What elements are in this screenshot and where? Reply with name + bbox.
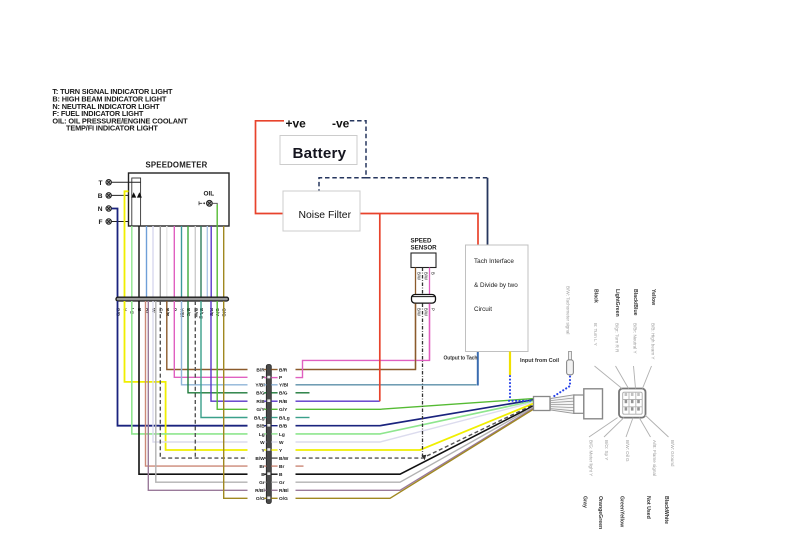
svg-text:A/B: Flame signal: A/B: Flame signal bbox=[652, 440, 657, 476]
svg-text:Y/Bl: Y/Bl bbox=[279, 383, 288, 389]
svg-text:B/Lg: B/Lg bbox=[279, 415, 290, 421]
svg-text:Y/Bl: Y/Bl bbox=[255, 383, 264, 389]
svg-text:B: B bbox=[261, 472, 265, 478]
svg-text:Tach Interface: Tach Interface bbox=[474, 258, 514, 265]
svg-text:R/Bl: R/Bl bbox=[279, 488, 289, 494]
svg-text:W: W bbox=[279, 440, 284, 446]
svg-text:B: Turn L Y: B: Turn L Y bbox=[593, 323, 598, 346]
svg-text:Gr: Gr bbox=[279, 480, 285, 486]
svg-text:B/O: Sp Y: B/O: Sp Y bbox=[604, 440, 609, 460]
svg-text:TEMP/FI INDICATOR LIGHT: TEMP/FI INDICATOR LIGHT bbox=[66, 124, 158, 133]
svg-text:Battery: Battery bbox=[293, 145, 347, 162]
svg-text:O/G: O/G bbox=[279, 496, 288, 502]
svg-text:OrangeGreen: OrangeGreen bbox=[597, 496, 603, 529]
svg-text:Gr: Gr bbox=[259, 480, 265, 486]
svg-text:+ve: +ve bbox=[286, 117, 307, 131]
svg-text:Br: Br bbox=[279, 464, 284, 470]
svg-text:SPEED: SPEED bbox=[411, 238, 433, 245]
svg-text:O/G: O/G bbox=[256, 496, 265, 502]
svg-text:OIL: OIL bbox=[204, 191, 215, 198]
svg-text:T: T bbox=[98, 180, 102, 187]
svg-text:B/W: B/W bbox=[416, 308, 421, 316]
svg-text:B/W: B/W bbox=[423, 308, 428, 316]
svg-text:Yellow: Yellow bbox=[650, 289, 656, 306]
svg-text:G/Y: G/Y bbox=[256, 407, 265, 413]
svg-text:BlackWhite: BlackWhite bbox=[663, 496, 669, 524]
svg-text:Black/Blue: Black/Blue bbox=[632, 289, 638, 316]
svg-text:B/B: B/B bbox=[279, 424, 288, 430]
svg-text:B/G: B/G bbox=[279, 391, 288, 397]
svg-text:Input from Coil: Input from Coil bbox=[520, 358, 560, 364]
svg-text:B/R: B/R bbox=[279, 367, 288, 373]
svg-text:Br: Br bbox=[259, 464, 264, 470]
svg-text:R/B: R/B bbox=[279, 399, 288, 405]
svg-text:W: W bbox=[260, 440, 265, 446]
svg-text:SPEEDOMETER: SPEEDOMETER bbox=[146, 161, 208, 170]
svg-text:& Divide by two: & Divide by two bbox=[474, 282, 518, 289]
svg-text:-ve: -ve bbox=[332, 117, 350, 131]
svg-text:B/Lg: B/Lg bbox=[254, 415, 265, 421]
svg-text:B/W: Oil G: B/W: Oil G bbox=[625, 440, 630, 462]
svg-text:B/W: Tachometer signal: B/W: Tachometer signal bbox=[566, 286, 571, 334]
svg-text:B/G: B/G bbox=[256, 391, 265, 397]
svg-text:SENSOR: SENSOR bbox=[411, 245, 438, 252]
svg-text:Noise Filter: Noise Filter bbox=[299, 210, 352, 221]
svg-text:B/Br: Neutral Y: B/Br: Neutral Y bbox=[633, 323, 638, 354]
svg-text:GreenYellow: GreenYellow bbox=[619, 496, 625, 528]
svg-text:B/R: B/R bbox=[256, 367, 265, 373]
svg-text:B/B: High beam Y: B/B: High beam Y bbox=[651, 323, 656, 359]
svg-text:B/W: Ground: B/W: Ground bbox=[670, 440, 675, 467]
svg-text:B/W: B/W bbox=[416, 272, 421, 280]
svg-text:B/W: B/W bbox=[255, 456, 265, 462]
svg-text:LightGreen: LightGreen bbox=[614, 289, 620, 317]
svg-text:B: B bbox=[279, 472, 283, 478]
svg-text:Output to Tach: Output to Tach bbox=[444, 356, 478, 362]
svg-text:B/gr: Turn R R: B/gr: Turn R R bbox=[615, 323, 620, 353]
svg-text:B/B: B/B bbox=[256, 424, 265, 430]
svg-text:Lg: Lg bbox=[279, 432, 285, 438]
svg-text:Gray: Gray bbox=[582, 496, 588, 508]
svg-text:B/W: B/W bbox=[423, 272, 428, 280]
svg-text:R/Bl: R/Bl bbox=[255, 488, 265, 494]
svg-text:G/Y: G/Y bbox=[279, 407, 288, 413]
svg-text:N: N bbox=[98, 206, 103, 213]
svg-text:Not Used: Not Used bbox=[645, 496, 651, 519]
svg-text:B: B bbox=[430, 272, 435, 275]
svg-text:Black: Black bbox=[593, 289, 599, 303]
svg-text:B: B bbox=[98, 193, 103, 200]
svg-text:F: F bbox=[98, 219, 102, 226]
svg-text:Lg: Lg bbox=[259, 432, 265, 438]
svg-text:B/G: Meter light Y: B/G: Meter light Y bbox=[589, 440, 594, 476]
svg-text:P: P bbox=[430, 308, 435, 311]
svg-text:Circuit: Circuit bbox=[474, 306, 492, 313]
svg-text:B/W: B/W bbox=[279, 456, 289, 462]
svg-text:R/B: R/B bbox=[256, 399, 265, 405]
